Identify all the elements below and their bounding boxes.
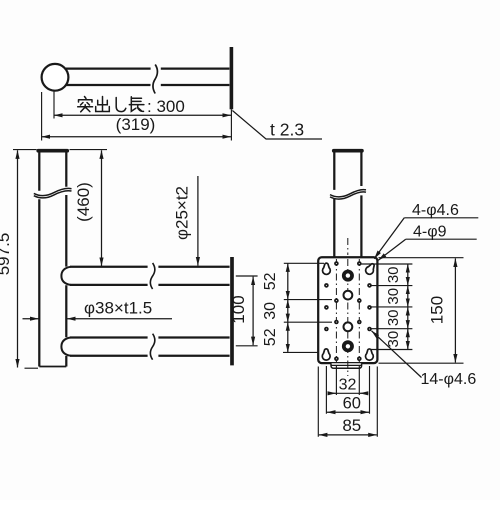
svg-text:52: 52 (262, 328, 279, 346)
lower arm pipe outline (70, 338, 230, 356)
dimension line 100 (arm spacing) (252, 277, 254, 346)
extension line lower arm centerline (236, 345, 258, 347)
keyhole slot top-left (323, 263, 331, 274)
svg-text:4-φ9: 4-φ9 (413, 224, 447, 241)
svg-text:60: 60 (343, 395, 361, 413)
svg-text:30: 30 (385, 309, 402, 326)
extension lines for 52/30/52 (283, 263, 332, 352)
keyhole slot top-right (tilted) (364, 262, 376, 276)
lower arm crimped end cap at mast (61, 338, 70, 356)
extension line at ball left edge (41, 92, 43, 141)
svg-text:: 300: : 300 (147, 97, 185, 116)
extension line mast top right (70, 149, 108, 151)
dimension 60 (327, 411, 369, 413)
large bolt hole bottom (filled ring) (342, 340, 354, 352)
pipe left edge (side view) (333, 152, 335, 257)
mast diameter arrows (23, 318, 39, 320)
extension lines for 30 pitch rows (361, 264, 413, 350)
extension line mast bottom left (25, 367, 39, 369)
pipe break symbol (top view) (153, 65, 158, 94)
dimension line 597.5 (17, 150, 19, 367)
svg-text:100: 100 (229, 295, 248, 323)
pipe right edge (side view) (360, 152, 362, 257)
svg-text:30: 30 (262, 302, 279, 320)
extension line upper arm centerline (236, 275, 258, 277)
crimped pipe lip below plate (331, 363, 362, 368)
mounting plate outline (318, 257, 377, 363)
pipe top cap (side view) (334, 149, 362, 153)
label 突出し長: 300 (78, 97, 144, 112)
svg-text:14-φ4.6: 14-φ4.6 (421, 371, 477, 388)
arm pipe outline (top view) (66, 69, 229, 85)
extension line mast top left (13, 149, 37, 151)
flange plate edge (front view) (230, 257, 234, 365)
svg-text:(460): (460) (74, 182, 93, 222)
svg-text:32: 32 (339, 377, 357, 394)
keyhole slot bottom-left (322, 349, 330, 360)
dimension line (460) (101, 150, 103, 266)
dimension line 300 (54, 114, 231, 116)
plate centerline inner-left column (335, 259, 337, 362)
svg-text:597.5: 597.5 (0, 233, 13, 276)
leader line for t 2.3 (232, 111, 322, 140)
svg-text:φ25×t2: φ25×t2 (173, 186, 192, 240)
keyhole slot bottom-right (365, 349, 373, 360)
dimension lines 52/30/52 (287, 263, 289, 299)
svg-text:52: 52 (262, 272, 279, 290)
extension line below flange (230, 109, 232, 140)
pipe centerline (347, 238, 349, 255)
leader line for arm pipe size (197, 176, 199, 266)
pipe break symbol (side view) (330, 190, 366, 199)
14 small phi4.6 holes (324, 261, 372, 361)
extension lines for 150 (379, 258, 464, 364)
open hole lower middle (344, 322, 353, 331)
mast top cap (front view) (38, 149, 67, 153)
svg-text:30: 30 (385, 331, 402, 348)
upper arm pipe outline (70, 267, 230, 285)
large bolt hole top (filled ring) (342, 270, 354, 282)
mast left edge (38, 152, 40, 367)
mast bottom end (39, 366, 66, 368)
plate centerline center column (347, 259, 349, 376)
upper arm crimped end cap at mast (61, 267, 70, 285)
svg-text:φ38×t1.5: φ38×t1.5 (84, 299, 152, 318)
ball cap on arm pipe end (top view) (42, 64, 69, 91)
plate centerline inner-right column (358, 259, 360, 362)
upper arm break symbol (150, 263, 155, 289)
svg-text:30: 30 (385, 266, 402, 283)
svg-text:4-φ4.6: 4-φ4.6 (412, 202, 459, 219)
dimension lines 30 pitch (407, 264, 409, 286)
svg-text:30: 30 (385, 288, 402, 305)
mast right edge (65, 152, 67, 367)
dimension 85 (319, 434, 377, 436)
svg-text:150: 150 (428, 296, 447, 324)
mast break symbol (front view) (34, 188, 72, 197)
dimension line (319) (42, 136, 231, 138)
open hole upper middle (344, 291, 353, 300)
lower arm break symbol (150, 334, 155, 360)
extension line at ball right edge (53, 92, 55, 119)
flange plate edge (top view) (230, 47, 234, 109)
dimension line 150 (454, 258, 456, 362)
svg-text:(319): (319) (116, 115, 156, 134)
extension lines below plate (318, 366, 377, 437)
svg-text:85: 85 (342, 416, 361, 435)
dimension 32 (328, 392, 337, 394)
svg-text:t 2.3: t 2.3 (270, 120, 304, 140)
